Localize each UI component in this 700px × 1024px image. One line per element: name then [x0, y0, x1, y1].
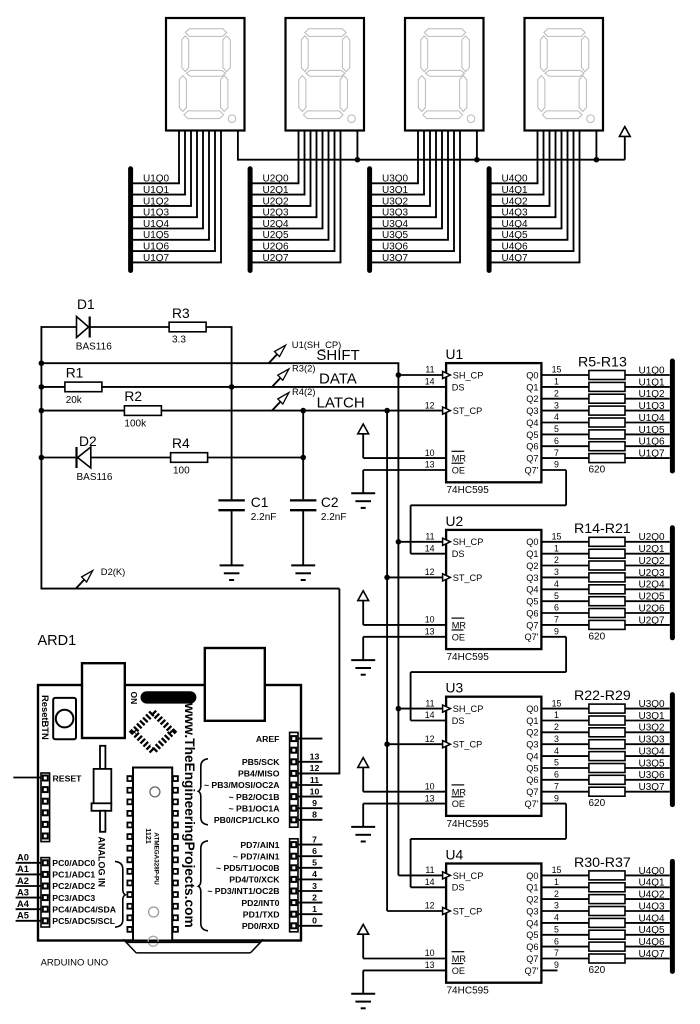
svg-text:U2Q5: U2Q5 — [639, 592, 666, 603]
svg-text:4: 4 — [554, 746, 559, 756]
svg-text:PB5/SCK: PB5/SCK — [242, 757, 280, 767]
svg-text:PD2/INT0: PD2/INT0 — [241, 898, 279, 908]
svg-text:6: 6 — [554, 603, 559, 613]
svg-text:A4: A4 — [17, 899, 30, 909]
svg-text:U1Q2: U1Q2 — [639, 389, 666, 400]
wires: display DS2 segment pins — [299, 131, 341, 263]
DIP chip ATMEGA328P-PU — [127, 768, 179, 947]
voltage probe R4(2) — [272, 386, 315, 410]
svg-text:OE: OE — [452, 632, 465, 642]
wire: display DS3 common pin — [476, 131, 478, 160]
svg-text:DS: DS — [452, 382, 465, 392]
net ladder U2Q0-U2Q7 — [250, 169, 341, 271]
svg-text:9: 9 — [312, 798, 317, 808]
svg-text:~ PD7/AIN1: ~ PD7/AIN1 — [233, 851, 280, 861]
svg-text:Q7: Q7 — [526, 620, 538, 630]
svg-text:U3Q0: U3Q0 — [639, 699, 666, 710]
svg-text:ON: ON — [129, 692, 139, 705]
svg-text:Q4: Q4 — [526, 752, 538, 762]
svg-text:Q7: Q7 — [526, 787, 538, 797]
svg-text:Q6: Q6 — [526, 775, 538, 785]
svg-text:U4Q2: U4Q2 — [502, 196, 529, 207]
svg-text:R2: R2 — [124, 389, 142, 404]
svg-text:Q1: Q1 — [526, 883, 538, 893]
svg-text:7: 7 — [554, 781, 559, 791]
svg-text:ST_CP: ST_CP — [453, 573, 483, 583]
analog header A0-A5 — [41, 858, 50, 927]
svg-text:U1Q4: U1Q4 — [143, 219, 170, 230]
crystal component — [92, 746, 112, 832]
svg-text:PD1/TXD: PD1/TXD — [243, 909, 280, 919]
reset button — [53, 698, 76, 739]
svg-text:ST_CP: ST_CP — [453, 906, 483, 916]
svg-text:U4Q7: U4Q7 — [502, 253, 529, 264]
svg-text:Q2: Q2 — [526, 561, 538, 571]
svg-text:11: 11 — [310, 775, 319, 785]
svg-text:6: 6 — [554, 770, 559, 780]
diode D1 BAS116 — [41, 297, 169, 352]
svg-text:Q5: Q5 — [526, 930, 538, 940]
svg-text:15: 15 — [552, 865, 562, 875]
svg-text:U4Q1: U4Q1 — [639, 878, 666, 889]
net ladder U1Q0-U1Q7 — [131, 169, 222, 271]
svg-text:U1Q3: U1Q3 — [639, 401, 666, 412]
svg-text:U1Q0: U1Q0 — [639, 365, 666, 376]
svg-text:1121: 1121 — [144, 828, 153, 844]
svg-text:620: 620 — [589, 631, 606, 642]
svg-text:U3Q5: U3Q5 — [639, 758, 666, 769]
svg-text:~ PD5/T1/OC0B: ~ PD5/T1/OC0B — [216, 863, 280, 873]
svg-text:13: 13 — [425, 793, 435, 803]
svg-text:Q0: Q0 — [526, 871, 538, 881]
svg-text:ST_CP: ST_CP — [453, 740, 483, 750]
svg-text:Q3: Q3 — [526, 740, 538, 750]
svg-text:10: 10 — [425, 781, 435, 791]
svg-text:74HC595: 74HC595 — [447, 986, 490, 997]
RESET header — [41, 773, 50, 842]
svg-text:14: 14 — [425, 543, 435, 553]
svg-text:PC2/ADC2: PC2/ADC2 — [52, 881, 95, 891]
svg-text:Q3: Q3 — [526, 573, 538, 583]
svg-text:PD7/AIN1: PD7/AIN1 — [240, 840, 279, 850]
svg-text:3: 3 — [554, 400, 559, 410]
svg-text:Q3: Q3 — [526, 906, 538, 916]
svg-text:Q0: Q0 — [526, 370, 538, 380]
svg-text:U4Q0: U4Q0 — [502, 174, 529, 185]
svg-text:U3Q0: U3Q0 — [382, 174, 409, 185]
junction dots on left vertical — [39, 360, 45, 460]
svg-text:R4(2): R4(2) — [292, 386, 315, 397]
diode D2 BAS116 — [41, 434, 170, 483]
svg-text:~ PB3/MOSI/OC2A: ~ PB3/MOSI/OC2A — [204, 780, 280, 790]
svg-text:3: 3 — [554, 734, 559, 744]
svg-text:9: 9 — [554, 793, 559, 803]
svg-text:100: 100 — [173, 465, 190, 476]
wire: SHIFT vertical to all SH_CP — [396, 363, 447, 875]
svg-text:620: 620 — [589, 965, 606, 976]
resistor R1 20k — [41, 366, 446, 406]
svg-text:5: 5 — [554, 591, 559, 601]
svg-text:6: 6 — [554, 936, 559, 946]
svg-text:Q2: Q2 — [526, 728, 538, 738]
svg-text:www.TheEngineeringProjects.com: www.TheEngineeringProjects.com — [182, 702, 197, 928]
svg-text:4: 4 — [554, 913, 559, 923]
svg-text:9: 9 — [554, 960, 559, 970]
svg-text:U2Q2: U2Q2 — [263, 196, 290, 207]
svg-text:U1Q2: U1Q2 — [143, 196, 170, 207]
svg-text:10: 10 — [425, 448, 435, 458]
net ladder U3Q0-U3Q7 — [370, 169, 461, 271]
svg-text:5: 5 — [312, 858, 317, 868]
svg-text:U1Q5: U1Q5 — [639, 425, 666, 436]
svg-text:U3Q1: U3Q1 — [382, 185, 409, 196]
svg-text:U4Q5: U4Q5 — [639, 925, 666, 936]
svg-text:D2(K): D2(K) — [101, 566, 125, 577]
svg-text:~ PB1/OC1A: ~ PB1/OC1A — [229, 803, 281, 813]
svg-text:5: 5 — [554, 424, 559, 434]
svg-text:PC0/ADC0: PC0/ADC0 — [52, 858, 95, 868]
svg-text:Q7: Q7 — [526, 454, 538, 464]
svg-text:D2: D2 — [79, 434, 97, 449]
svg-text:U4Q6: U4Q6 — [639, 937, 666, 948]
voltage probe R3(2) — [272, 363, 315, 387]
svg-text:4: 4 — [312, 869, 317, 879]
wire SHIFT row — [41, 362, 399, 364]
svg-text:2: 2 — [554, 889, 559, 899]
svg-text:12: 12 — [425, 734, 435, 744]
svg-text:SH_CP: SH_CP — [453, 370, 484, 380]
7-segment display DS1 — [166, 18, 245, 131]
resistor R3 3.3 — [169, 306, 232, 346]
svg-text:11: 11 — [425, 365, 434, 375]
wires: display DS4 segment pins — [538, 131, 580, 263]
Arduino UNO ARD1 — [38, 633, 302, 941]
svg-text:Q7': Q7' — [524, 966, 538, 976]
svg-text:MR: MR — [452, 621, 467, 631]
svg-text:Q7': Q7' — [524, 632, 538, 642]
capacitor C2 2.2nF — [290, 495, 346, 565]
svg-text:U2Q2: U2Q2 — [639, 556, 666, 567]
svg-text:7: 7 — [554, 448, 559, 458]
junction: display 3 common — [474, 157, 480, 163]
power jack — [205, 648, 265, 721]
analog pin wires and labels A0-A5 — [16, 853, 117, 926]
capacitor C1 2.2nF — [218, 495, 276, 565]
wire: R3 to DATA and C1 (vertical) — [231, 327, 233, 499]
svg-text:U4Q4: U4Q4 — [639, 913, 666, 924]
svg-text:12: 12 — [310, 763, 320, 773]
svg-text:8: 8 — [312, 810, 317, 820]
svg-text:U3Q2: U3Q2 — [382, 196, 409, 207]
svg-text:U1Q1: U1Q1 — [639, 377, 666, 388]
junction: LATCH to C2 branch — [300, 408, 306, 414]
resistor network R22-R29 620 with ladder U3Q0-7 — [574, 688, 672, 809]
svg-text:RESET: RESET — [53, 773, 83, 783]
svg-text:2: 2 — [554, 722, 559, 732]
svg-text:U1Q3: U1Q3 — [143, 208, 170, 219]
svg-text:15: 15 — [552, 698, 562, 708]
cascade wires Q7' to DS — [411, 470, 566, 970]
svg-text:10: 10 — [425, 615, 435, 625]
svg-text:ResetBTN: ResetBTN — [40, 695, 51, 740]
svg-text:6: 6 — [554, 436, 559, 446]
brace analog group — [115, 861, 125, 927]
svg-text:15: 15 — [552, 532, 562, 542]
svg-text:9: 9 — [554, 627, 559, 637]
svg-text:7: 7 — [554, 615, 559, 625]
svg-text:BAS116: BAS116 — [76, 342, 112, 353]
voltage probe U1(SH_CP) — [269, 339, 342, 363]
svg-text:3.3: 3.3 — [172, 334, 186, 345]
resistor network R5-R13 620 with ladder U1Q0-7 — [578, 354, 672, 475]
svg-text:PB0/ICP1/CLKO: PB0/ICP1/CLKO — [214, 815, 280, 825]
wire: display DS2 common pin — [356, 131, 358, 160]
svg-text:ST_CP: ST_CP — [453, 406, 483, 416]
svg-text:11: 11 — [425, 865, 434, 875]
digital pins 7-0 — [207, 834, 322, 931]
USB connector — [82, 663, 125, 738]
svg-text:Q2: Q2 — [526, 394, 538, 404]
svg-text:11: 11 — [425, 698, 434, 708]
junction: display 2 common — [355, 157, 361, 163]
svg-text:U2Q6: U2Q6 — [639, 603, 666, 614]
wire: left vertical net — [40, 326, 42, 588]
svg-text:U4Q3: U4Q3 — [639, 901, 666, 912]
svg-text:D1: D1 — [77, 297, 95, 312]
svg-text:13: 13 — [310, 752, 320, 762]
svg-text:5: 5 — [554, 758, 559, 768]
shift register U1 74HC595 — [351, 347, 589, 508]
resistor network R14-R21 620 with ladder U2Q0-7 — [574, 521, 672, 642]
svg-text:PC4/ADC4/SDA: PC4/ADC4/SDA — [52, 904, 116, 914]
wire: display DS4 common pin — [595, 131, 597, 160]
svg-text:U4Q2: U4Q2 — [639, 890, 666, 901]
shift register U2 74HC595 — [351, 514, 589, 675]
svg-text:Q6: Q6 — [526, 442, 538, 452]
svg-text:A0: A0 — [17, 853, 29, 863]
svg-text:12: 12 — [425, 567, 435, 577]
power LED pill — [141, 691, 197, 703]
svg-text:U2Q0: U2Q0 — [263, 174, 290, 185]
svg-text:2: 2 — [554, 388, 559, 398]
svg-text:3: 3 — [312, 881, 317, 891]
junction: R3/DATA — [229, 384, 235, 390]
7-segment display DS4 — [525, 18, 604, 131]
svg-text:U2Q5: U2Q5 — [263, 230, 290, 241]
ground (C2) — [291, 565, 315, 580]
svg-text:R5-R13: R5-R13 — [578, 354, 627, 370]
svg-text:Q6: Q6 — [526, 942, 538, 952]
svg-text:U3Q1: U3Q1 — [639, 711, 666, 722]
svg-text:U2Q0: U2Q0 — [639, 532, 666, 543]
svg-text:SHIFT: SHIFT — [316, 347, 359, 364]
svg-text:15: 15 — [552, 365, 562, 375]
digital pins 13-8 — [204, 752, 322, 825]
junction: display 4 common — [594, 157, 600, 163]
svg-text:AREF: AREF — [256, 734, 280, 744]
svg-text:SH_CP: SH_CP — [453, 871, 484, 881]
svg-text:U2Q6: U2Q6 — [263, 242, 290, 253]
wires: display DS3 segment pins — [418, 131, 460, 263]
svg-text:PC5/ADC5/SCL: PC5/ADC5/SCL — [52, 916, 115, 926]
svg-text:U4: U4 — [446, 847, 464, 862]
junction: R4/C2 — [300, 455, 306, 461]
wire: display DS1 common pin — [237, 131, 239, 160]
svg-text:74HC595: 74HC595 — [447, 819, 490, 830]
svg-text:A5: A5 — [17, 911, 29, 921]
svg-text:R14-R21: R14-R21 — [574, 521, 631, 537]
svg-text:U3Q4: U3Q4 — [382, 219, 409, 230]
svg-text:5: 5 — [554, 925, 559, 935]
resistor R2 100k — [41, 389, 446, 429]
shift register U3 74HC595 — [351, 681, 589, 842]
svg-text:U2Q7: U2Q7 — [639, 615, 666, 626]
svg-text:620: 620 — [589, 465, 606, 476]
wire: D2(K) row to Arduino pin 12 — [41, 589, 340, 774]
wire: LATCH down to C2 — [302, 411, 304, 500]
svg-text:MR: MR — [452, 787, 467, 797]
wire: LATCH vertical to all ST_CP — [384, 408, 446, 911]
svg-text:13: 13 — [425, 460, 435, 470]
svg-text:U3Q4: U3Q4 — [639, 747, 666, 758]
svg-text:U4Q1: U4Q1 — [502, 185, 529, 196]
svg-text:Q5: Q5 — [526, 430, 538, 440]
svg-text:R4: R4 — [172, 436, 190, 451]
svg-text:Q5: Q5 — [526, 763, 538, 773]
right header block PD — [290, 839, 298, 932]
svg-text:1: 1 — [554, 710, 559, 720]
svg-text:10: 10 — [425, 948, 435, 958]
svg-text:OE: OE — [452, 466, 465, 476]
svg-text:U1Q6: U1Q6 — [639, 437, 666, 448]
wire RESET stub — [13, 777, 41, 779]
svg-text:SH_CP: SH_CP — [453, 704, 484, 714]
svg-text:620: 620 — [589, 798, 606, 809]
svg-text:Q4: Q4 — [526, 418, 538, 428]
svg-text:U3: U3 — [446, 681, 464, 696]
svg-text:LATCH: LATCH — [317, 394, 365, 411]
svg-text:U1Q6: U1Q6 — [143, 242, 170, 253]
svg-text:7: 7 — [554, 948, 559, 958]
svg-text:U3Q7: U3Q7 — [382, 253, 409, 264]
svg-text:R3: R3 — [172, 306, 190, 321]
svg-text:R22-R29: R22-R29 — [574, 688, 631, 704]
svg-text:4: 4 — [554, 412, 559, 422]
svg-text:2.2nF: 2.2nF — [251, 512, 277, 523]
svg-text:PD4/T0/XCK: PD4/T0/XCK — [229, 875, 280, 885]
svg-text:U1Q7: U1Q7 — [639, 449, 666, 460]
svg-text:OE: OE — [452, 966, 465, 976]
svg-text:~ PD3/INT1/OC2B: ~ PD3/INT1/OC2B — [207, 886, 279, 896]
svg-text:ATMEGA328P-PU: ATMEGA328P-PU — [153, 832, 160, 885]
svg-text:Q1: Q1 — [526, 549, 538, 559]
svg-text:100k: 100k — [124, 418, 147, 429]
svg-text:Q1: Q1 — [526, 382, 538, 392]
svg-text:Q1: Q1 — [526, 716, 538, 726]
svg-text:~ PB2/OC1B: ~ PB2/OC1B — [229, 792, 280, 802]
AREF pin — [256, 734, 323, 744]
svg-text:U3Q6: U3Q6 — [639, 770, 666, 781]
svg-text:PC3/ADC3: PC3/ADC3 — [52, 893, 95, 903]
ground (C1) — [220, 565, 244, 580]
svg-text:U3Q6: U3Q6 — [382, 242, 409, 253]
svg-text:DS: DS — [452, 716, 465, 726]
svg-text:U4Q4: U4Q4 — [502, 219, 529, 230]
svg-text:U3Q2: U3Q2 — [639, 723, 666, 734]
svg-text:MR: MR — [452, 454, 467, 464]
7-segment display DS2 — [286, 18, 365, 131]
svg-text:Q0: Q0 — [526, 704, 538, 714]
resistor network R30-R37 620 with ladder U4Q0-7 — [574, 855, 672, 976]
svg-text:U2Q3: U2Q3 — [263, 208, 290, 219]
svg-text:2: 2 — [312, 892, 317, 902]
svg-text:Q6: Q6 — [526, 608, 538, 618]
svg-text:U2Q3: U2Q3 — [639, 568, 666, 579]
svg-text:DS: DS — [452, 549, 465, 559]
svg-text:20k: 20k — [66, 395, 83, 406]
svg-text:12: 12 — [425, 901, 435, 911]
svg-text:3: 3 — [554, 901, 559, 911]
svg-text:14: 14 — [425, 377, 435, 387]
svg-text:14: 14 — [425, 710, 435, 720]
svg-text:13: 13 — [425, 627, 435, 637]
shift register U4 74HC595 — [351, 847, 589, 1008]
svg-text:U2: U2 — [446, 514, 464, 529]
svg-text:12: 12 — [425, 400, 435, 410]
svg-text:A1: A1 — [17, 864, 29, 874]
svg-text:C1: C1 — [251, 495, 269, 510]
svg-text:3: 3 — [554, 567, 559, 577]
svg-text:6: 6 — [312, 846, 317, 856]
svg-text:74HC595: 74HC595 — [447, 652, 490, 663]
svg-text:Q7': Q7' — [524, 465, 538, 475]
wire: common bus to VCC — [237, 159, 625, 161]
7-segment display DS3 — [405, 18, 484, 131]
svg-text:U2Q4: U2Q4 — [263, 219, 290, 230]
brace PB group — [198, 759, 208, 825]
svg-text:Q3: Q3 — [526, 406, 538, 416]
svg-text:1: 1 — [554, 877, 559, 887]
svg-text:ANALOG IN: ANALOG IN — [97, 837, 107, 888]
svg-text:Q5: Q5 — [526, 597, 538, 607]
svg-text:1: 1 — [312, 904, 317, 914]
svg-text:14: 14 — [425, 877, 435, 887]
svg-text:Q7: Q7 — [526, 954, 538, 964]
svg-text:U1Q4: U1Q4 — [639, 413, 666, 424]
svg-text:ARDUINO UNO: ARDUINO UNO — [41, 957, 109, 968]
svg-text:74HC595: 74HC595 — [447, 485, 490, 496]
resistor R4 100 — [171, 436, 304, 476]
svg-text:13: 13 — [425, 960, 435, 970]
svg-text:Q4: Q4 — [526, 585, 538, 595]
svg-text:9: 9 — [554, 460, 559, 470]
power flag VCC (displays) — [624, 136, 626, 159]
svg-text:OE: OE — [452, 799, 465, 809]
svg-text:10: 10 — [310, 786, 320, 796]
svg-text:R3(2): R3(2) — [292, 363, 315, 374]
svg-text:U2Q1: U2Q1 — [263, 185, 290, 196]
svg-text:DS: DS — [452, 883, 465, 893]
svg-text:U1Q0: U1Q0 — [143, 174, 170, 185]
svg-text:2.2nF: 2.2nF — [321, 512, 347, 523]
svg-text:Q7': Q7' — [524, 799, 538, 809]
svg-text:U2Q1: U2Q1 — [639, 544, 666, 555]
svg-text:2: 2 — [554, 555, 559, 565]
svg-text:4: 4 — [554, 579, 559, 589]
svg-text:R1: R1 — [66, 366, 84, 381]
svg-text:U3Q3: U3Q3 — [639, 735, 666, 746]
svg-text:SH_CP: SH_CP — [453, 537, 484, 547]
